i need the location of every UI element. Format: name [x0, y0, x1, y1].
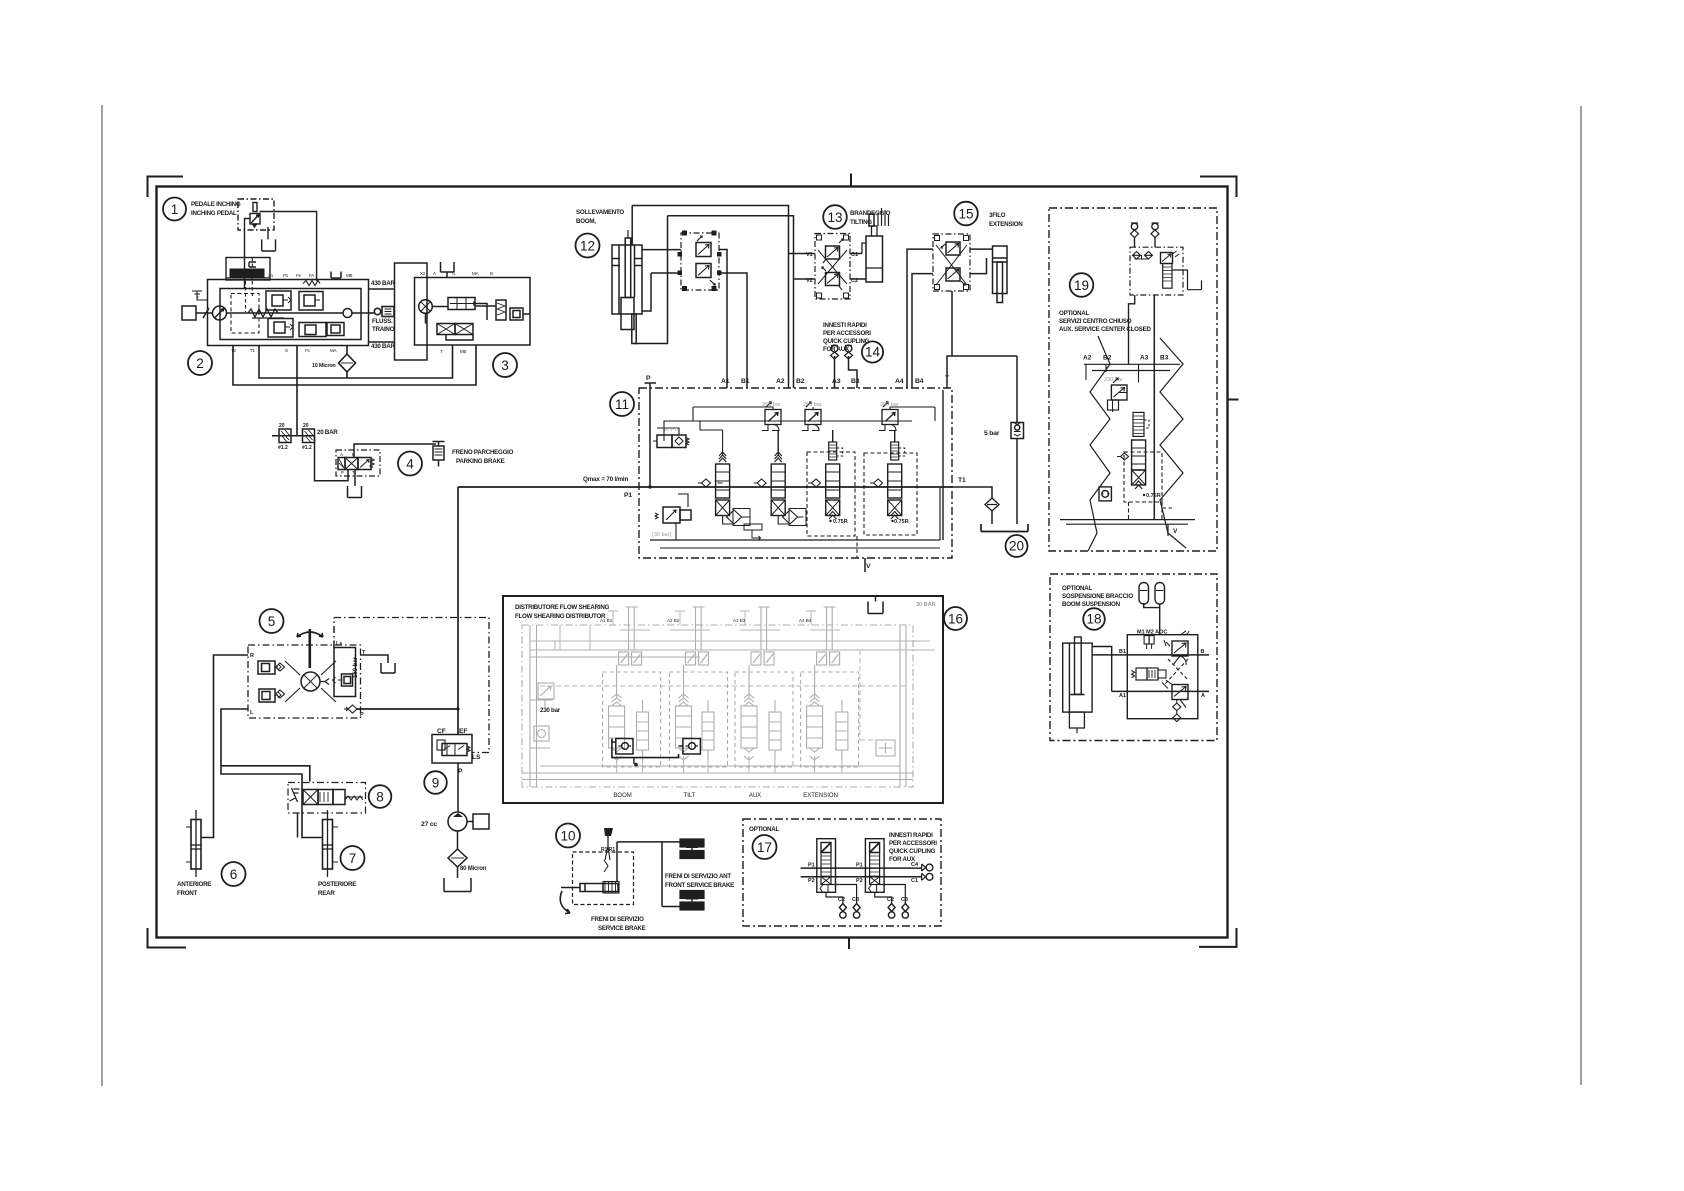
svg-text:A2: A2 [776, 378, 785, 385]
balloon 13 [823, 205, 847, 229]
coupling B [1152, 223, 1158, 229]
outer loop wire [233, 346, 476, 386]
svg-text:A1: A1 [721, 378, 730, 385]
svg-text:T1: T1 [958, 477, 966, 484]
svg-text:430 BAR: 430 BAR [371, 280, 395, 287]
boom cylinder barrel [612, 245, 642, 314]
svg-text:B1: B1 [741, 378, 750, 385]
svg-text:0.75R: 0.75R [894, 519, 909, 525]
svg-text:B: B [490, 271, 493, 276]
corner mark top-right [1200, 177, 1237, 198]
steering arrow arc [297, 632, 323, 637]
svg-text:SOSPENSIONE BRACCIO: SOSPENSIONE BRACCIO [1062, 593, 1133, 600]
deviator valve 2 [865, 839, 884, 893]
relief valve 1 [266, 291, 291, 310]
balloon 18 [1083, 608, 1105, 630]
relief B2 [805, 410, 821, 425]
svg-text:ANTERIORE: ANTERIORE [177, 881, 211, 888]
svg-text:DISTRIBUTORE FLOW SHEARING: DISTRIBUTORE FLOW SHEARING [515, 604, 610, 611]
distributor dash-dot enclosure [639, 388, 952, 558]
boom lock cartridges [696, 243, 711, 257]
svg-text:MB: MB [460, 349, 467, 354]
distributor section 4 (extension spool) [864, 430, 917, 535]
balloon 20 [1006, 535, 1028, 557]
C2 C3 drop couplings valve2 [875, 885, 906, 904]
svg-text:0.75R: 0.75R [833, 519, 848, 525]
torn-edge zigzag left [1088, 336, 1110, 551]
svg-text:X2: X2 [420, 271, 426, 276]
block 17 dash-dot border [743, 819, 941, 926]
svg-text:MA: MA [472, 271, 479, 276]
gray inner dash-dot border [522, 625, 913, 787]
dashed pilot crossing [1165, 659, 1188, 684]
gerotor circle [301, 672, 320, 691]
parking brake actuator [433, 442, 445, 447]
svg-text:Qmax = 70 l/min: Qmax = 70 l/min [583, 476, 628, 483]
brake line to front [617, 842, 662, 907]
valve 8 lever [290, 788, 300, 802]
svg-text:P: P [360, 712, 364, 718]
brake release cylinder [496, 300, 506, 320]
supply line from left [561, 887, 580, 889]
T1 check diamond [985, 498, 999, 511]
gray inlet relief 230bar [538, 683, 554, 699]
5 bar check valve [1011, 423, 1024, 439]
gray mid gallery [540, 685, 905, 687]
gray top gallery [530, 650, 935, 657]
svg-text:C4: C4 [911, 862, 919, 868]
svg-text:B4: B4 [915, 378, 924, 385]
motor housing [415, 278, 531, 346]
svg-text:PARKING BRAKE: PARKING BRAKE [456, 458, 505, 465]
return arrow curve [560, 891, 570, 914]
svg-text:R: R [250, 653, 254, 659]
svg-text:11: 11 [615, 397, 629, 412]
gray left inlet column [530, 625, 553, 787]
feed lines down [1153, 295, 1155, 520]
svg-text:2: 2 [196, 356, 204, 371]
svg-text:T: T [440, 349, 443, 354]
section galleries [1084, 364, 1180, 370]
balloon 17 [753, 835, 777, 859]
master cylinder body [580, 884, 618, 892]
svg-text:FRONT SERVICE BRAKE: FRONT SERVICE BRAKE [665, 882, 734, 889]
svg-text:P1: P1 [283, 273, 289, 278]
svg-text:BOOM SUSPENSION: BOOM SUSPENSION [1062, 601, 1121, 608]
black check valve box section1 [616, 739, 633, 755]
svg-text:OPTIONAL: OPTIONAL [749, 826, 779, 833]
Ls dash-dot up [333, 618, 335, 648]
svg-text:A3: A3 [832, 378, 841, 385]
svg-text:C2: C2 [838, 897, 845, 903]
svg-text:INNESTI RAPIDI: INNESTI RAPIDI [889, 832, 933, 839]
front steering cylinder [191, 820, 201, 870]
svg-text:12: 12 [580, 239, 595, 254]
balloon 10 [556, 824, 580, 848]
filter B [303, 429, 315, 443]
svg-text:T2: T2 [231, 348, 237, 353]
svg-text:V1: V1 [806, 252, 813, 258]
svg-text:4: 4 [406, 457, 414, 472]
T port to tank [361, 655, 396, 673]
svg-text:X1: X1 [268, 273, 274, 278]
T return inside distributor [857, 390, 943, 572]
svg-text:LS: LS [472, 754, 481, 761]
svg-text:A1: A1 [1119, 693, 1126, 699]
left drain bracket [192, 291, 208, 300]
internal galleries [664, 421, 912, 441]
svg-text:G: G [452, 271, 456, 276]
svg-text:BOOM,: BOOM, [576, 218, 596, 225]
A1 work line [1112, 690, 1209, 692]
balloon 16 [944, 607, 967, 630]
svg-text:230 bar: 230 bar [540, 707, 561, 714]
parking valve dashed box [336, 450, 380, 476]
svg-text:L: L [250, 710, 254, 716]
suction tank [444, 867, 471, 892]
gear pump 27cc [448, 812, 467, 831]
svg-text:QUICK CUPLING: QUICK CUPLING [889, 848, 936, 855]
10 micron filter diamond [339, 354, 356, 372]
svg-text:6: 6 [230, 867, 238, 882]
A3 riser [834, 356, 836, 388]
svg-text:FLOW SHEARING DISTRIBUTOR: FLOW SHEARING DISTRIBUTOR [515, 613, 606, 620]
svg-text:#1.2: #1.2 [278, 445, 288, 451]
svg-text:19: 19 [1074, 278, 1089, 293]
pump motor M [467, 821, 473, 823]
P to pump [457, 763, 459, 812]
P2 gallery [801, 876, 922, 878]
svg-text:A3 B3: A3 B3 [733, 618, 746, 623]
parking valve spring [370, 459, 374, 468]
balloon 1 [163, 198, 186, 221]
svg-text:1: 1 [171, 202, 179, 217]
valve 9 body [432, 735, 472, 764]
B2 riser [668, 216, 794, 388]
430 bar line top [369, 288, 395, 290]
svg-text:S: S [285, 348, 288, 353]
steering dashed enclosure [248, 645, 361, 718]
balloon 6 [222, 862, 246, 886]
svg-text:3: 3 [501, 358, 509, 373]
internal links [426, 304, 531, 341]
svg-text:P2: P2 [808, 878, 815, 884]
svg-text:W V h: W V h [663, 427, 678, 433]
svg-text:20: 20 [1009, 539, 1024, 554]
shuttle spools (dense) [230, 269, 265, 278]
P pilot riser [645, 383, 657, 487]
block 16 housing [503, 596, 943, 803]
accumulator 2 [1155, 583, 1165, 605]
svg-text:M1 M2 AOC: M1 M2 AOC [1137, 630, 1167, 636]
charge pump circle [213, 306, 227, 320]
svg-text:B1: B1 [1119, 649, 1126, 655]
svg-text:B: B [1201, 649, 1205, 655]
electric motor M [182, 306, 196, 320]
check diamonds bottom [1173, 700, 1181, 714]
svg-text:(30 bar): (30 bar) [652, 532, 671, 538]
numbered balloons [163, 198, 1105, 887]
svg-text:SOLLEVAMENTO: SOLLEVAMENTO [576, 209, 624, 216]
svg-text:T1: T1 [250, 348, 256, 353]
P1 gallery [801, 867, 922, 869]
balloon 3 [493, 353, 517, 377]
svg-text:14: 14 [865, 345, 881, 360]
extension cylinder [970, 249, 993, 274]
R line to front cylinder [201, 655, 248, 838]
relief valve 2 [299, 292, 323, 311]
A2 riser [632, 206, 788, 389]
svg-text:SERVIZI CENTRO CHIUSO: SERVIZI CENTRO CHIUSO [1059, 318, 1132, 325]
servo dashed box [231, 294, 259, 334]
svg-text:V2: V2 [806, 278, 813, 284]
motor shaft [196, 308, 212, 318]
tilt valve dash-dot box [815, 234, 850, 300]
relief B4 [882, 410, 898, 425]
svg-text:INCHING PEDAL: INCHING PEDAL [191, 210, 237, 217]
B3 riser [849, 356, 858, 388]
top spring [303, 281, 320, 286]
deviator valve 1 [817, 839, 836, 893]
svg-text:FRENI DI SERVIZIO: FRENI DI SERVIZIO [591, 916, 644, 923]
distributor section 3 (aux spool) [807, 430, 855, 536]
suction filter [457, 831, 459, 849]
overcenter cartridge top [1172, 641, 1188, 656]
svg-text:A3: A3 [1140, 355, 1149, 362]
front brake caliper lower [680, 891, 704, 911]
coupling A [1131, 223, 1137, 229]
balloon 4 [398, 452, 422, 476]
pump block inner housing [220, 289, 361, 340]
balloon 5 [260, 609, 284, 633]
boom cylinder rod [625, 238, 631, 298]
tilt valve stubs [789, 254, 816, 280]
svg-text:P2: P2 [856, 878, 863, 884]
page edge line right [1580, 106, 1582, 1085]
rod end line up [627, 230, 629, 238]
check diamonds [276, 663, 285, 698]
svg-text:20: 20 [303, 423, 309, 429]
svg-text:AUX: AUX [749, 793, 761, 799]
svg-text:REAR: REAR [318, 890, 335, 897]
extension valve dash-dot box [933, 234, 970, 291]
steering column [308, 629, 311, 668]
C2 C3 drop couplings valve1 [826, 885, 857, 904]
accumulator lines [1144, 604, 1160, 635]
svg-text:9: 9 [432, 776, 440, 791]
pump block outer housing [208, 280, 369, 346]
svg-text:FRONT: FRONT [177, 890, 198, 897]
svg-text:A: A [340, 452, 343, 457]
svg-text:160 bar: 160 bar [353, 656, 359, 678]
master cylinder dashed box [573, 852, 634, 905]
svg-text:C3: C3 [901, 897, 908, 903]
balloon 9 [424, 771, 447, 794]
svg-text:A2: A2 [1083, 355, 1092, 362]
balloon 11 [610, 392, 634, 416]
svg-text:5: 5 [268, 614, 276, 629]
gray section 4 of flow sharing block [824, 607, 836, 650]
svg-text:P1: P1 [624, 492, 632, 499]
port P check [344, 705, 357, 713]
svg-text:265 bar: 265 bar [803, 402, 822, 408]
steering feed from valve 9 [357, 708, 459, 710]
drawing frame [157, 187, 1228, 938]
svg-text:MB: MB [346, 273, 353, 278]
main text labels [177, 201, 1151, 932]
line filters to parking valve [315, 436, 349, 481]
servo spring symbol [248, 309, 278, 317]
430 bar line bottom [369, 341, 395, 343]
page edge line left [101, 105, 103, 1086]
svg-text:Ls: Ls [336, 641, 342, 647]
rear steering cylinder [323, 820, 333, 870]
head side wire to top gallery [631, 206, 633, 246]
shift valve [510, 308, 523, 320]
bottom galleries [1060, 520, 1195, 525]
svg-text:430 BAR: 430 BAR [371, 343, 395, 350]
charge filter drop [346, 346, 348, 379]
metering zigzag [345, 796, 363, 800]
parking valve body [345, 458, 358, 470]
A1 riser [719, 250, 727, 389]
svg-text:15: 15 [958, 207, 973, 222]
pilot relief bottom-left [655, 513, 658, 519]
svg-text:PEDALE INCHING: PEDALE INCHING [191, 201, 241, 208]
svg-text:C1: C1 [911, 878, 918, 884]
svg-text:16: 16 [948, 612, 963, 627]
svg-text:EXTENSION: EXTENSION [803, 793, 838, 799]
wire valve to block2 left [245, 219, 251, 289]
corner mark bottom-left [148, 928, 187, 948]
balloon 8 [369, 785, 392, 808]
right relief block [334, 648, 356, 697]
feed line down to brake filters [296, 346, 298, 436]
balloon 19 [1070, 273, 1094, 297]
svg-text:C2: C2 [887, 897, 894, 903]
boom lock valve dash-dot box [681, 233, 719, 290]
svg-text:B2: B2 [796, 378, 805, 385]
frame tick bottom center [848, 938, 850, 950]
tilt overcenter top [826, 246, 840, 259]
B4 riser [912, 274, 933, 388]
shuttle box on pump top [226, 258, 270, 281]
svg-text:18: 18 [1086, 612, 1101, 627]
gray section 3 of flow sharing block [758, 607, 770, 650]
valve side wires [642, 250, 681, 311]
cylinder base flare [878, 208, 889, 226]
relief valve 3 [268, 319, 293, 338]
svg-text:QUICK CUPLING: QUICK CUPLING [823, 338, 870, 345]
coupling drop lines [1135, 238, 1156, 248]
svg-text:V: V [866, 563, 871, 570]
branch to priority valve 8 [221, 766, 310, 782]
reducer cartridge [1161, 253, 1173, 264]
B1 work line [1092, 654, 1209, 656]
lower spool pair with X [437, 324, 455, 335]
parking valve solenoid [338, 458, 345, 470]
gray section 2 of flow sharing block [693, 607, 705, 650]
svg-text:8: 8 [376, 790, 384, 805]
dashed sub box [1124, 452, 1162, 502]
svg-text:5 bar: 5 bar [984, 430, 1000, 437]
svg-text:A4: A4 [895, 378, 904, 385]
svg-text:T: T [352, 470, 355, 475]
svg-text:#1.2: #1.2 [302, 445, 312, 451]
tank bracket above motor [441, 262, 455, 278]
svg-text:B2: B2 [1103, 355, 1112, 362]
svg-text:SERVICE BRAKE: SERVICE BRAKE [598, 925, 646, 932]
filters supply line [272, 435, 315, 437]
aux valve cell [327, 323, 344, 336]
svg-text:3FILO: 3FILO [989, 212, 1006, 219]
svg-text:OPTIONAL: OPTIONAL [1059, 310, 1089, 317]
drain orifice box [1099, 487, 1111, 501]
T riser and link to tank [947, 291, 1017, 388]
drain to tank [1172, 270, 1202, 290]
svg-text:A4 B4: A4 B4 [799, 618, 812, 623]
svg-text:INNESTI RAPIDI: INNESTI RAPIDI [823, 322, 867, 329]
svg-text:A1 B1: A1 B1 [600, 618, 613, 623]
balloon 15 [954, 202, 978, 226]
black pilot wire linking check boxes [612, 739, 683, 758]
svg-text:B3: B3 [851, 378, 860, 385]
solenoid valve [1132, 671, 1135, 678]
T1 branch to tank [952, 487, 992, 498]
twin check diamonds [1133, 252, 1141, 260]
gray section 1 of flow sharing block [626, 607, 638, 650]
rotor links [285, 661, 336, 702]
svg-text:FRENO PARCHEGGIO: FRENO PARCHEGGIO [452, 449, 514, 456]
svg-text:P1: P1 [856, 863, 863, 869]
svg-text:MA: MA [330, 348, 337, 353]
svg-text:27 cc: 27 cc [421, 821, 437, 828]
valve tank port [348, 470, 362, 498]
svg-text:10: 10 [560, 829, 575, 844]
accumulator 1 [1139, 583, 1149, 605]
relief A2 [765, 410, 781, 425]
svg-text:13: 13 [827, 210, 842, 225]
svg-text:TRAINO: TRAINO [372, 326, 395, 333]
svg-text:B: B [352, 452, 355, 457]
dashed pilot lines into block [246, 258, 253, 313]
tilt overcenter bottom [826, 273, 840, 286]
inner loop wire [259, 346, 453, 379]
L line to rear cylinder [221, 709, 323, 838]
EF feed vertical [457, 487, 459, 735]
svg-text:10 Micron: 10 Micron [312, 363, 336, 369]
service spool cartridge [1133, 412, 1144, 436]
gray right collector [860, 650, 876, 740]
corner mark top-left [148, 177, 184, 198]
coupling C4 [922, 864, 926, 871]
cylinder feed link [1092, 647, 1112, 692]
balloon 12 [576, 234, 600, 258]
motor control spool [448, 298, 475, 310]
gray top port ticks [608, 611, 816, 625]
valve block housing [1127, 635, 1198, 719]
block 18 dash-dot border [1050, 574, 1217, 741]
svg-text:Fe: Fe [296, 273, 302, 278]
relief connection lines [693, 407, 935, 410]
A4 riser [907, 249, 933, 388]
V drain [856, 536, 858, 558]
overcenter cartridge bottom [1172, 685, 1188, 700]
valve top port to brake [354, 444, 436, 458]
balloon 2 [188, 351, 212, 375]
svg-text:7: 7 [349, 851, 357, 866]
corner mark bottom-right [1199, 928, 1237, 947]
